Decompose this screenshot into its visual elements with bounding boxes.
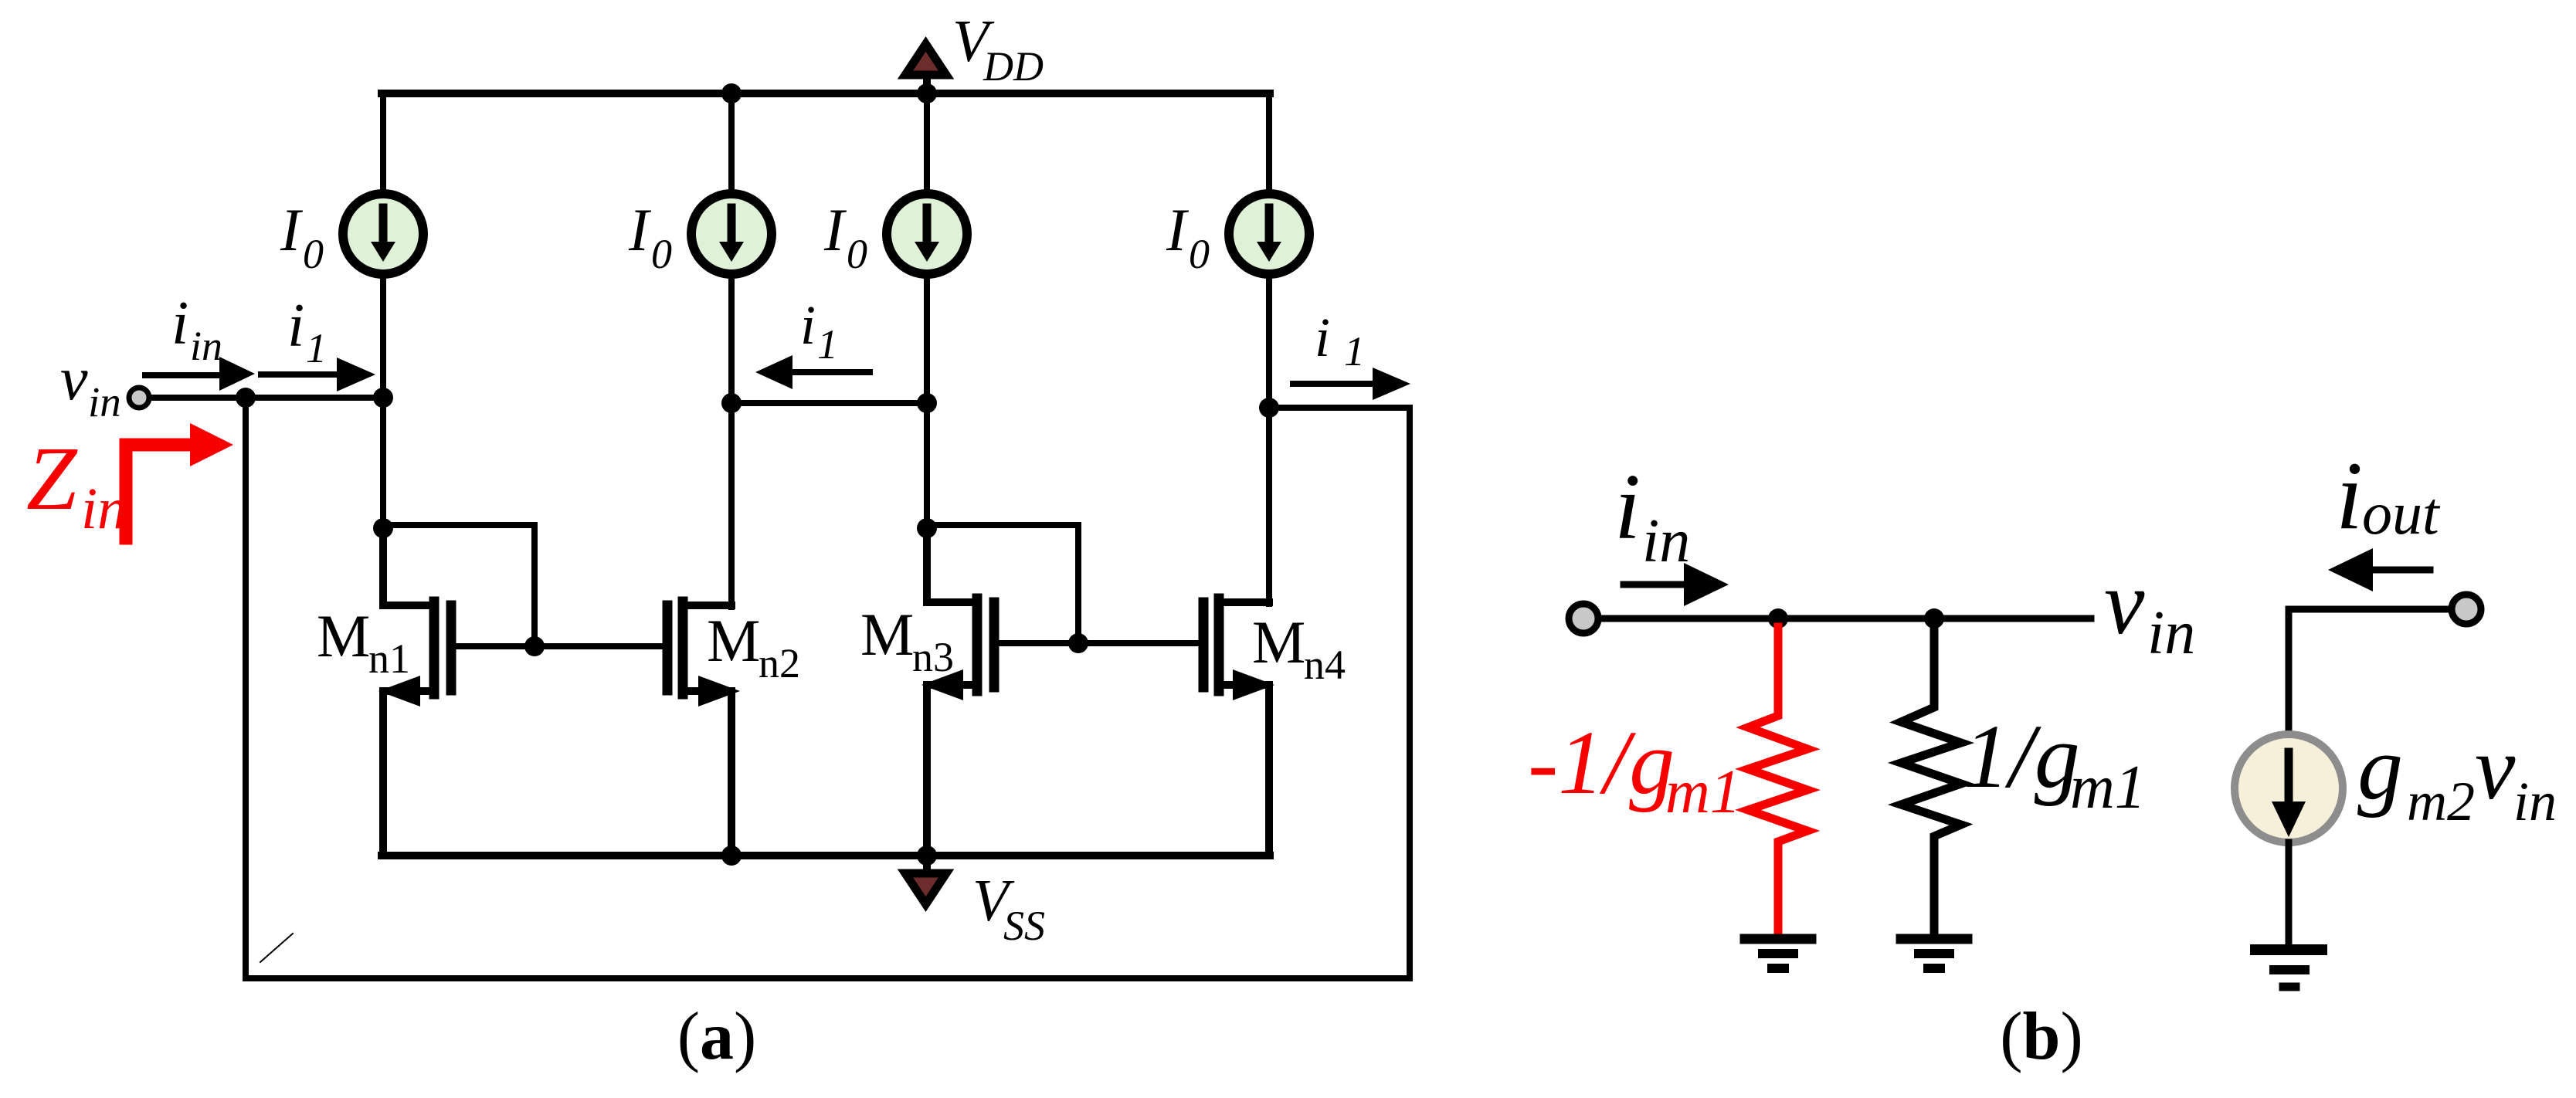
label I0 #1 [280,196,324,277]
transistor Mn1 [383,528,451,856]
svg-text:i: i [1614,455,1641,559]
svg-text:0: 0 [1189,231,1210,277]
wire branch2 middle [728,274,735,607]
resistor 1/gm1 black [1901,618,1961,936]
svg-text:in: in [81,476,127,541]
label I0 #4 [1166,196,1210,277]
svg-text:1: 1 [817,321,838,368]
label Mn4 [1252,608,1346,688]
label i1 left [287,292,327,371]
svg-text:I: I [1166,196,1190,263]
wire VSS rail [382,852,1270,859]
node A [236,388,256,408]
label Mn2 [707,607,800,686]
current source gm2vin [2235,734,2343,842]
wire branch3 upper [924,93,930,194]
wire branch4 upper [1266,93,1272,194]
label vin b [2104,552,2195,667]
label I0 #3 [823,196,867,277]
current source I0 #4 [1229,194,1309,274]
wire main b [1598,615,2091,622]
label VDD [952,8,1044,90]
label Mn3 [860,601,954,680]
svg-text:M: M [707,607,760,674]
svg-text:i: i [287,292,304,360]
svg-text:g: g [2357,717,2403,818]
svg-text:1: 1 [306,325,327,371]
svg-text:n2: n2 [759,640,800,686]
transistor Mn3 [927,528,994,856]
wire top VDD rail [382,90,1270,97]
svg-text:v: v [2104,552,2145,653]
power VSS symbol [905,856,946,904]
svg-text:in: in [2147,599,2195,667]
svg-text:n3: n3 [912,634,954,680]
node dot vss-b3 [917,846,937,866]
svg-text:M: M [860,601,914,668]
wire gate pair2 [999,640,1203,646]
current source I0 #3 [887,194,967,274]
wire branch2 upper [728,93,735,194]
svg-text:out: out [2362,480,2441,547]
wire feedback loop [246,398,1410,978]
wire branch3 middle [924,274,930,531]
node dot mid-b2 [721,393,742,413]
current source I0 #1 [343,194,423,274]
svg-text:1: 1 [1344,328,1365,374]
node dot rail-b2 [721,83,742,103]
svg-text:1/g: 1/g [1963,706,2080,807]
svg-text:0: 0 [651,231,672,277]
svg-text:m2: m2 [2407,771,2475,832]
label gm2vin [2357,717,2557,832]
node dot res1 [1768,608,1788,629]
svg-text:I: I [823,196,847,263]
wire diode tie 1 [383,525,535,646]
svg-text:in: in [190,323,222,369]
label vin [60,345,121,425]
wire middle link [731,400,927,406]
resistor -1/gm1 red [1748,627,1807,936]
wire branch1 middle [380,274,386,531]
label i_in [171,290,222,369]
stray slash [260,934,293,962]
node dot drain3 [917,518,937,538]
arrow Zin red [126,423,233,538]
svg-text:(a): (a) [677,999,757,1074]
source arrow Mn4 [1233,669,1274,700]
svg-text:in: in [88,378,121,425]
transistor Mn2 [667,602,731,856]
svg-text:v: v [60,345,88,413]
label i_in b [1614,455,1690,575]
terminal in b [1569,604,1598,633]
svg-text:i: i [1315,307,1330,368]
node dot out4 [1259,398,1279,418]
terminal vin [129,388,149,408]
svg-text:0: 0 [303,231,324,277]
wire diode tie 2 [927,525,1078,643]
arrow i_in b [1624,563,1729,606]
svg-text:M: M [1252,608,1305,676]
label VSS [972,867,1045,949]
svg-text:i: i [2336,442,2363,550]
node B [373,388,393,408]
node dot gate1 [524,636,545,656]
arrow i1 right [1293,368,1410,400]
label Mn1 [317,602,410,682]
label Zin [26,428,127,541]
node dot gate3 [1068,633,1088,653]
wire node4 output [1269,405,1410,411]
svg-text:-1/g: -1/g [1528,712,1675,813]
wire branch4 middle [1266,274,1272,604]
wire output b [2289,609,2449,734]
svg-text:DD: DD [983,43,1044,90]
svg-text:i: i [171,290,188,358]
node dot rail-b3 [917,83,937,103]
svg-text:SS: SS [1003,903,1045,949]
svg-text:in: in [2513,771,2557,832]
ground 1 [1745,939,1811,968]
ground 2 [1901,939,1967,968]
svg-text:in: in [1642,507,1690,575]
svg-text:(b): (b) [2000,999,2083,1074]
wire gate pair1 [456,643,667,649]
svg-text:i: i [800,294,816,356]
svg-text:0: 0 [847,231,867,277]
source arrow Mn2 [698,676,740,707]
arrow i1 left [261,358,375,391]
ground 3 [2255,950,2322,987]
wire input vin [142,395,383,401]
arrow i_in [145,357,255,391]
transistor Mn4 [1203,598,1269,856]
label 1/gm1 [1963,706,2146,822]
label -1/gm1 [1528,712,1741,826]
label i1 middle [800,294,838,368]
label i1 right [1315,307,1365,374]
node dot mid-b3 [917,393,937,413]
terminal out b [2452,595,2481,624]
arrow i1 middle [755,355,870,389]
label i_out [2336,442,2441,550]
svg-text:n4: n4 [1304,642,1346,688]
node dot res2 [1924,608,1944,629]
power VDD symbol [905,44,946,93]
node dot vss-b2 [721,846,742,866]
svg-text:Z: Z [26,428,78,529]
svg-text:m1: m1 [1665,758,1741,826]
svg-text:v: v [2475,717,2516,818]
wire branch1 upper [380,93,386,194]
current source I0 #2 [691,194,772,274]
svg-text:M: M [317,602,370,669]
source arrow Mn3 [921,669,963,700]
svg-text:I: I [628,196,652,263]
label I0 #2 [628,196,672,277]
source arrow Mn1 [378,676,420,707]
svg-text:I: I [280,196,304,263]
arrow i_out [2328,548,2430,591]
svg-text:n1: n1 [368,635,410,682]
svg-text:m1: m1 [2070,754,2146,822]
node dot drain1 [373,518,393,538]
wire source to ground [2286,842,2293,945]
